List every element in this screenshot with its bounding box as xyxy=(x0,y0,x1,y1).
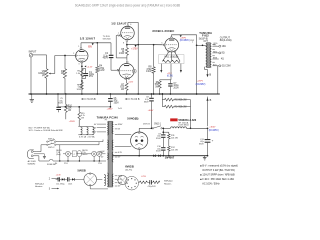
svg-text:(6Z-P1): (6Z-P1) xyxy=(125,170,132,172)
heater lamp right xyxy=(118,176,127,185)
AC plug P1 xyxy=(27,150,34,159)
wire V1 cathode xyxy=(81,62,83,64)
lamp ballast xyxy=(77,150,81,156)
chassis ground xyxy=(30,57,32,94)
bypass capacitor C1 100u xyxy=(82,68,86,70)
wire secondary common to ground xyxy=(217,66,219,94)
svg-text:■ B-V : measured ±10% (no sign: ■ B-V : measured ±10% (no signal) xyxy=(200,164,238,167)
svg-text:5U4G(B): 5U4G(B) xyxy=(127,117,138,121)
line filter coils xyxy=(78,125,93,127)
wire HV to rectifier xyxy=(115,134,131,136)
chassis ground PSU xyxy=(204,156,206,158)
svg-text:350V: 350V xyxy=(156,138,161,140)
node +287V marker xyxy=(180,35,182,37)
svg-text:Green: Green xyxy=(82,153,87,156)
svg-text:SW5-A-4: SW5-A-4 xyxy=(164,180,173,183)
svg-text:6.3V: 6.3V xyxy=(118,152,123,154)
svg-text:To B: To B xyxy=(118,108,123,110)
lamp bottom stubs xyxy=(59,145,61,161)
to channel B arrow 2 xyxy=(125,98,127,100)
reservoir capacitor C8 47u 350V xyxy=(151,94,153,98)
to channel B arrow 1 xyxy=(81,98,83,100)
svg-text:+2.2V: +2.2V xyxy=(87,66,93,68)
svg-text:(Red): (Red) xyxy=(56,154,61,156)
svg-text:200V: 200V xyxy=(173,87,179,89)
svg-text:350V: 350V xyxy=(144,101,149,103)
wire B+ branch xyxy=(57,94,59,107)
OPT secondary winding xyxy=(210,44,211,67)
svg-text:+6.3V: +6.3V xyxy=(56,174,62,176)
power switch SW1-2 xyxy=(47,144,48,145)
svg-text:To Ch B: To Ch B xyxy=(131,99,140,101)
svg-text:Heaters: Heaters xyxy=(35,185,43,188)
svg-text:(DC280V): (DC280V) xyxy=(180,40,190,42)
svg-text:6: 6 xyxy=(130,24,131,26)
svg-text:350V: 350V xyxy=(114,102,120,104)
svg-text:350V: 350V xyxy=(199,143,204,145)
svg-text:+290V: +290V xyxy=(69,121,76,123)
svg-text:To Ch B: To Ch B xyxy=(87,99,96,101)
PT HV winding right xyxy=(112,122,113,134)
svg-text:2: 2 xyxy=(73,53,74,55)
svg-text:8: 8 xyxy=(123,43,124,45)
svg-text:+297V: +297V xyxy=(197,81,204,83)
svg-text:350V: 350V xyxy=(58,103,63,105)
svg-text:2.5V 3A: 2.5V 3A xyxy=(88,135,96,138)
diodes D1 D2 1N4007 xyxy=(153,155,155,157)
svg-text:6GA4/6L6GC-SRPP 12AU7 single-e: 6GA4/6L6GC-SRPP 12AU7 single-ended stere… xyxy=(75,4,180,8)
heater wire xyxy=(56,178,58,180)
svg-text:10k 1W: 10k 1W xyxy=(171,137,178,139)
svg-text:(6.3V): (6.3V) xyxy=(167,76,173,78)
svg-text:1W: 1W xyxy=(81,117,84,119)
PT primary taps xyxy=(97,123,106,125)
svg-text:300B/4-300BC: 300B/4-300BC xyxy=(152,29,174,33)
svg-text:SW1-2: SW1-2 xyxy=(48,147,55,149)
svg-text:Bk: Bk xyxy=(55,163,57,165)
wire V3 cathode xyxy=(126,79,128,83)
wire to heater block xyxy=(78,106,80,108)
wire V2 plate to B+ xyxy=(127,22,129,24)
svg-text:■ 12AU7 SRPP drive / NFB 6dB: ■ 12AU7 SRPP drive / NFB 6dB xyxy=(200,173,235,176)
svg-text:1/2 12AU7: 1/2 12AU7 xyxy=(80,37,96,41)
svg-text:1/2W: 1/2W xyxy=(99,70,105,72)
svg-text:10D1: 10D1 xyxy=(68,183,72,185)
svg-text:320V: 320V xyxy=(118,124,123,126)
svg-text:(A): (A) xyxy=(42,74,45,77)
node +2.2V marker xyxy=(84,66,86,68)
wiper arrow of VR1 xyxy=(49,73,51,75)
svg-text:F-913: F-913 xyxy=(202,35,209,38)
svg-text:TAMURA PC340: TAMURA PC340 xyxy=(97,116,119,120)
filter capacitors C9 C10 xyxy=(162,128,164,134)
svg-text:350V: 350V xyxy=(156,151,161,153)
wire switch to PT xyxy=(56,141,103,143)
triode V3 1/2 12AU7 lower xyxy=(119,64,134,79)
svg-text:OUTPUT 3.2W (8Ω / THD 5%): OUTPUT 3.2W (8Ω / THD 5%) xyxy=(202,169,235,172)
svg-text:5V6GB: 5V6GB xyxy=(78,170,86,173)
wire lamp row xyxy=(63,153,66,155)
decoupling capacitor C6 47u xyxy=(109,94,111,98)
svg-text:85V: 85V xyxy=(88,46,92,48)
PT primary winding xyxy=(107,122,108,135)
node +170V marker xyxy=(135,45,137,47)
PT heater winding left xyxy=(107,140,108,150)
svg-text:Heaters: Heaters xyxy=(164,182,171,185)
chassis ground AC xyxy=(34,153,45,155)
svg-text:16Ω: 16Ω xyxy=(222,46,226,48)
svg-text:GM 2600: GM 2600 xyxy=(103,38,111,40)
filter capacitor C11 47u xyxy=(205,139,211,141)
svg-text:1/2 12AU7: 1/2 12AU7 xyxy=(111,22,127,26)
svg-text:+170V: +170V xyxy=(131,49,138,51)
wire V4 plate to OPT xyxy=(170,35,172,37)
svg-text:+300V: +300V xyxy=(148,110,154,112)
svg-text:SY6 : Diode or 5U4GB Rebuild: SY6 : Diode or 5U4GB Rebuild NSF xyxy=(29,130,64,132)
svg-text:DCR 380Ω: DCR 380Ω xyxy=(178,125,189,127)
svg-text:■ F-913 : PRI 10kΩ SEC 4-16Ω: ■ F-913 : PRI 10kΩ SEC 4-16Ω xyxy=(200,178,234,181)
PT 6.3V taps xyxy=(115,151,118,153)
grid stopper wire upper xyxy=(116,35,117,37)
bleeder resistor R14 82k xyxy=(162,106,164,108)
wire rectifier output xyxy=(138,128,140,131)
bypass capacitor C7 100u 200V xyxy=(169,80,171,83)
svg-text:3: 3 xyxy=(78,64,79,66)
filament supply arrows xyxy=(160,64,162,70)
PT HV taps xyxy=(115,124,117,126)
lamp PL3 xyxy=(97,151,102,156)
heater winding W1 xyxy=(104,175,106,186)
svg-text:B: B xyxy=(209,72,211,76)
bleeder resistor R13 82k xyxy=(161,94,163,107)
svg-text:1/2W: 1/2W xyxy=(119,53,125,55)
SRPP output wire xyxy=(127,44,162,46)
svg-text:50/60Hz: 50/60Hz xyxy=(28,163,36,165)
wire V2 cathode to output node xyxy=(126,42,128,45)
svg-text:+295V: +295V xyxy=(107,108,114,110)
ground bus xyxy=(29,93,220,95)
svg-text:10k 1W: 10k 1W xyxy=(171,149,178,151)
wire OPT primary bottom to B xyxy=(204,67,206,70)
resistor R15 4.7k xyxy=(78,112,81,120)
dropper resistor R10 10k xyxy=(65,94,67,104)
svg-text:6.3V 1A: 6.3V 1A xyxy=(79,135,87,138)
wire input to volume xyxy=(33,54,47,56)
svg-text:8Ω: 8Ω xyxy=(222,53,225,55)
heater diode D3 xyxy=(62,178,64,180)
capacitor C5 47u xyxy=(56,106,61,108)
svg-text:6V6GB: 6V6GB xyxy=(125,164,134,168)
svg-text:INPUT: INPUT xyxy=(29,50,37,54)
svg-text:AC 100V / 50Hz: AC 100V / 50Hz xyxy=(202,182,220,185)
svg-text:PV-I: PV-I xyxy=(98,163,102,165)
svg-text:VR2 100Ω(B): VR2 100Ω(B) xyxy=(164,57,178,59)
svg-text:470μ/16V: 470μ/16V xyxy=(148,186,157,188)
svg-text:C14 4700μ: C14 4700μ xyxy=(56,183,65,185)
wire V1 plate xyxy=(80,43,82,48)
svg-text:4.7Ω: 4.7Ω xyxy=(141,176,146,178)
svg-text:8Ω(4-16Ω): 8Ω(4-16Ω) xyxy=(220,39,232,42)
fuse F1 xyxy=(38,156,40,161)
wire V4 cathode xyxy=(171,52,173,62)
resistor box CSP xyxy=(72,151,76,157)
svg-text:+300V: +300V xyxy=(209,126,216,128)
PSU ground bus xyxy=(112,155,208,157)
hum balance pot VR2 100ohm xyxy=(159,55,184,64)
svg-text:5: 5 xyxy=(161,42,162,44)
svg-text:SW2-1: SW2-1 xyxy=(154,123,162,125)
svg-text:400V: 400V xyxy=(103,58,109,60)
grid resistor R1 1M xyxy=(64,55,66,57)
svg-text:1/2W: 1/2W xyxy=(76,89,81,91)
svg-text:1N4007: 1N4007 xyxy=(165,156,175,160)
svg-text:0Ω COM: 0Ω COM xyxy=(222,66,231,68)
svg-text:PV-I: PV-I xyxy=(64,163,68,165)
heater capacitor C14 xyxy=(57,177,59,181)
svg-text:4Ω: 4Ω xyxy=(221,59,224,61)
wire wiper to V1 grid xyxy=(54,56,56,74)
heater indicator tube V6 xyxy=(84,173,97,186)
svg-text:BRN: BRN xyxy=(213,58,218,60)
heater dropper network xyxy=(138,181,141,183)
choke CH1 TAMURA A-823 xyxy=(170,118,177,121)
svg-text:(DC295V): (DC295V) xyxy=(196,84,206,86)
svg-text:(DC295V): (DC295V) xyxy=(209,130,219,132)
svg-text:+10V: +10V xyxy=(128,81,134,83)
plate load line R4 470k xyxy=(96,42,98,44)
wire grid to V4 xyxy=(154,44,164,46)
resistors R11 R12 xyxy=(163,131,169,133)
svg-text:RED: RED xyxy=(213,51,218,53)
svg-text:290V B: 290V B xyxy=(143,124,150,126)
node +85V marker xyxy=(92,43,94,45)
coupling capacitor C2 0.1u xyxy=(110,43,112,55)
heater diode D4 xyxy=(72,178,74,180)
wire hot to switch xyxy=(37,151,41,153)
svg-text:25V: 25V xyxy=(89,76,94,78)
OPT secondary taps xyxy=(212,43,214,45)
grid resistor R8 470k xyxy=(153,44,155,46)
svg-text:1: 1 xyxy=(78,46,79,48)
OPT primary winding xyxy=(206,43,208,66)
svg-text:+287V: +287V xyxy=(180,37,187,39)
svg-text:45: 45 xyxy=(133,71,135,73)
heater capacitor C15 xyxy=(67,177,69,181)
